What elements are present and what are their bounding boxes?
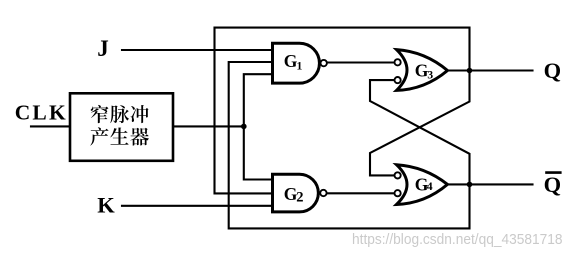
svg-text:Q: Q — [544, 172, 562, 197]
pulse generator box — [70, 93, 173, 161]
wire: K input — [122, 205, 273, 207]
pulse generator text line1 窄脉冲 — [91, 105, 149, 123]
Qbar overbar — [545, 171, 561, 174]
svg-text:CLK: CLK — [15, 100, 68, 124]
svg-text:3: 3 — [427, 69, 433, 81]
wire: pulse box output to node CP — [173, 125, 244, 127]
svg-text:1: 1 — [297, 60, 303, 73]
svg-text:Q: Q — [544, 58, 562, 83]
wire: Q output line — [448, 69, 533, 71]
wire: Q feedback via top edge and left edge into G2 middle input — [215, 28, 470, 194]
gate G4 (OR with negated inputs) — [395, 165, 448, 205]
svg-text:J: J — [97, 36, 109, 61]
wire: Qbar output line — [448, 183, 533, 185]
wire: cross-coupling Q node to G4 top input — [370, 71, 470, 176]
node CP junction dot — [241, 124, 247, 130]
gate G3 (OR with negated inputs) — [395, 50, 448, 91]
node Qbar junction dot — [467, 182, 473, 188]
wire: G2 output to G4 bottom input — [327, 192, 395, 194]
wire: CLK to pulse box — [31, 125, 70, 127]
svg-text:4: 4 — [427, 179, 433, 193]
wire: CP vertical feeding G1 bottom input and G2 top input — [244, 74, 273, 179]
node Q junction dot — [467, 68, 473, 74]
wire: Qbar feedback via bottom edge into G1 middle input — [229, 62, 470, 228]
svg-text:K: K — [97, 192, 115, 217]
wire: J input — [122, 49, 273, 51]
gate G1 (NAND) — [273, 43, 327, 83]
svg-text:https://blog.csdn.net/qq_43581: https://blog.csdn.net/qq_43581718 — [352, 231, 563, 248]
wire: cross-coupling Qbar node to G3 bottom input — [370, 80, 470, 184]
svg-text:2: 2 — [296, 189, 303, 205]
pulse generator text line2 产生器 — [90, 127, 149, 145]
gate G2 (NAND) — [273, 174, 327, 212]
wire: G1 output to G3 top input — [327, 61, 395, 63]
